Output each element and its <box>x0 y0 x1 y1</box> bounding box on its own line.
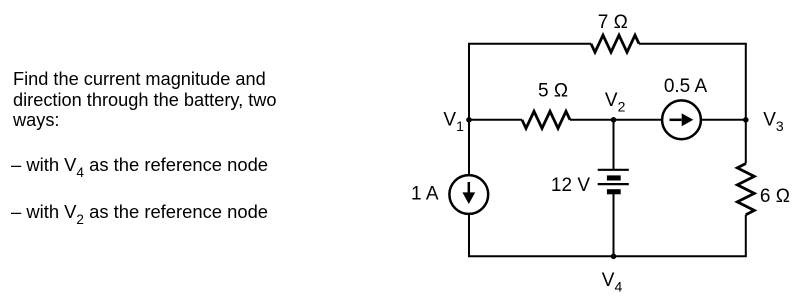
svg-text:5 Ω: 5 Ω <box>538 81 568 102</box>
problem statement paragraph <box>13 69 277 131</box>
svg-text:7 Ω: 7 Ω <box>598 12 628 33</box>
wire: top rail right segment <box>639 43 747 45</box>
node V2 (junction dot) <box>611 117 617 123</box>
wire: middle vertical battery down to V4 <box>613 192 615 257</box>
svg-text:V2: V2 <box>605 90 626 115</box>
wire: right vertical V3 down to 6 ohm resistor <box>745 120 747 164</box>
svg-text:1 A: 1 A <box>411 184 439 205</box>
wire: left vertical V1 down to 1A source <box>468 120 470 175</box>
resistor 5 ohm (middle rail) <box>522 111 570 128</box>
battery 12V plates <box>598 170 629 195</box>
wire: top-left vertical (V1 up to top rail) <box>468 44 470 120</box>
bullet: with V2 as reference node <box>11 203 268 223</box>
wire: middle rail V2 to 0.5A source <box>614 119 663 121</box>
svg-text:12 V: 12 V <box>551 175 590 196</box>
wire: top rail left segment <box>468 43 591 45</box>
wire: right vertical top rail down to V3 <box>745 44 747 120</box>
current source 1A (circle) <box>449 175 488 214</box>
wire: middle rail 0.5A source to V3 <box>701 119 746 121</box>
current source 0.5A (circle) <box>662 100 701 139</box>
current source 1A arrow <box>462 182 475 204</box>
wire: bottom rail <box>468 255 747 257</box>
bullet: with V4 as reference node <box>11 156 268 176</box>
resistor 7 ohm (top rail) <box>591 35 639 52</box>
node V4 (junction dot) <box>611 253 617 259</box>
svg-text:0.5 A: 0.5 A <box>664 76 708 97</box>
wire: middle rail V1 to 5 ohm resistor <box>469 119 522 121</box>
current source 0.5A arrow <box>670 113 694 126</box>
node V3 (junction dot) <box>743 117 749 123</box>
svg-text:V3: V3 <box>763 110 784 135</box>
node V1 (junction dot) <box>466 117 472 123</box>
svg-text:6 Ω: 6 Ω <box>760 186 790 207</box>
wire: right vertical 6 ohm resistor to bottom rail <box>745 215 747 256</box>
resistor 6 ohm (right branch) <box>737 164 754 215</box>
svg-text:V4: V4 <box>602 270 623 295</box>
wire: middle vertical V2 down to battery <box>613 120 615 170</box>
svg-text:V1: V1 <box>443 110 464 135</box>
wire: left vertical 1A source down to bottom rail <box>468 215 470 257</box>
wire: middle rail 5 ohm resistor to V2 <box>570 119 614 121</box>
